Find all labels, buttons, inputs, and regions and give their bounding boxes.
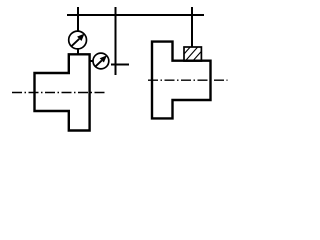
frame top horizontal line: [67, 14, 204, 16]
dial indicator 2 needle: [95, 60, 102, 66]
hatched support box: [176, 45, 215, 63]
dial indicator 1 circle: [69, 31, 87, 49]
rod C (holds hatched support): [191, 7, 193, 48]
dial indicator 2 stem: [90, 60, 94, 62]
dial indicator 2 circle: [93, 53, 109, 69]
dial indicator 1 stem: [77, 49, 79, 55]
rod A (holds dial indicator 1): [77, 7, 79, 31]
rod B tick: [111, 64, 129, 66]
left part outline: [35, 54, 90, 130]
dial indicator 1 needle: [71, 39, 79, 47]
rod B (side support): [115, 7, 117, 75]
left part centerline: [12, 92, 106, 94]
right part outline: [152, 42, 211, 119]
right part centerline: [148, 79, 228, 81]
